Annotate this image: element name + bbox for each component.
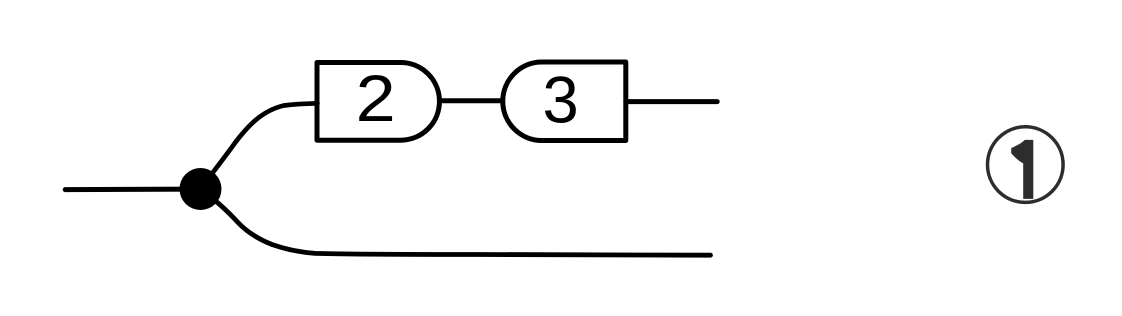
wire: upper branch from junction up to block 2	[207, 103, 318, 180]
node: filled junction dot	[180, 168, 222, 210]
block 3 (D-shaped box, round left, flat right)	[503, 62, 626, 141]
block 2 (D-shaped box, flat left, round right)	[317, 63, 439, 141]
svg-text:3: 3	[542, 64, 578, 137]
node label: circled 1 marker	[988, 127, 1064, 203]
wire: lower bypass branch from junction to the right	[205, 193, 711, 255]
wire: connector between block 2 and block 3	[440, 98, 504, 103]
wire: output lead to the right of block 3	[626, 99, 717, 104]
svg-text:2: 2	[356, 62, 396, 135]
wire: input lead from left to junction	[65, 187, 198, 193]
